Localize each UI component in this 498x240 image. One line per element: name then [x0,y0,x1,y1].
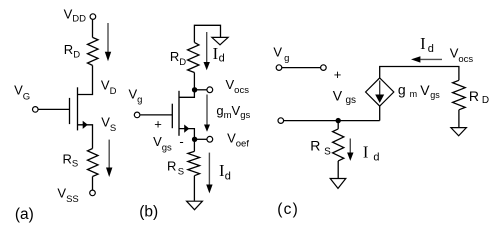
transistor Q2 channel bar (b) [178,91,180,136]
terminal Voef (b) [207,136,213,142]
svg-text:I: I [219,161,225,180]
terminal bottom left (c) [278,118,284,124]
wire diamond bottom (c) [379,106,381,121]
ground top (b) [212,37,228,44]
transistor Q2 gate bar (b) [171,104,173,129]
wire RD to ground (c) [458,110,460,128]
svg-text:d: d [373,152,379,164]
svg-text:I: I [363,142,369,161]
svg-text:d: d [428,43,434,55]
wire source to RS (a) [78,125,93,149]
wire node to terminal Vocs (b) [194,89,206,91]
wire node Voef to RS (b) [193,139,195,151]
resistor R4 RS (b) [188,151,200,175]
wire drain (b) [179,90,194,98]
wire RS to VSS (a) [92,177,94,191]
svg-text:+: + [334,67,342,82]
ground RD (c) [451,128,467,136]
terminal VG (a) [33,107,39,113]
wire gate (a) [39,108,70,110]
svg-text:I: I [213,44,219,63]
svg-text:m: m [410,89,418,99]
svg-text:d: d [219,53,225,65]
resistor R1 RD (a) [88,37,99,65]
terminal Vg (b) [134,112,140,118]
node junction dot RS (c) [336,118,341,123]
dependent source U1 diamond (c) [366,78,394,106]
current arrow Id beside RD (a) [105,23,111,61]
node junction dot Voef (b) [192,137,197,142]
svg-text:(c): (c) [277,201,299,218]
wire Vg open stub (c) [282,67,321,69]
dependent source U1 arrow (c) [375,81,384,104]
resistor R2 RS (a) [88,149,99,177]
svg-text:d: d [225,170,231,182]
node junction dot Vocs (b) [192,87,197,92]
wire RD to drain (a) [78,65,93,94]
wire VDD to RD (a) [92,20,94,38]
wire node to terminal Voef (b) [194,138,206,140]
wire RS to ground (b) [193,176,195,201]
transistor Q1 gate bar (a) [69,98,71,124]
wire node to RS (c) [337,121,339,129]
svg-text:g: g [398,82,406,98]
svg-text:gs: gs [430,90,440,100]
current arrow Id top (b) [204,32,210,70]
ground RS (c) [330,179,346,189]
transistor Q1 channel bar (a) [77,87,79,130]
terminal Vg right (c) [321,65,327,71]
ground bottom (b) [187,201,203,210]
svg-text:-: - [179,134,183,149]
resistor R6 RD (c) [453,80,466,110]
current arrow Id beside RS (a) [106,140,112,177]
current arrow Id beside RS (c) [347,139,353,161]
terminal Vocs (b) [207,87,213,93]
wire RD top to ground (b) [194,25,220,42]
resistor R5 RS (c) [333,129,344,161]
wire bottom rail (c) [284,120,380,122]
transistor Q2 source arrowhead (b) [184,125,189,133]
wire gate (b) [140,114,172,116]
wire diamond top to Vocs corner to RD (c) [380,67,459,81]
terminal Vg left (c) [276,65,282,71]
svg-text:+: + [154,116,162,131]
wire RD to node Vocs (b) [193,73,195,90]
wire source to node Voef (b) [179,129,194,140]
resistor R3 RD (b) [188,42,199,72]
svg-text:(b): (b) [139,204,158,221]
terminal VDD (a) [90,14,96,20]
current arrow Id top (c) [411,56,442,62]
current arrow Id bottom (b) [206,153,212,194]
transistor Q1 source arrowhead (a) [83,121,88,129]
current arrow gm Vgs (b) [204,95,210,132]
svg-text:(a): (a) [15,206,34,223]
svg-text:V: V [420,82,430,98]
svg-text:I: I [420,34,426,53]
wire RS to ground (c) [337,161,339,179]
terminal VSS (a) [90,190,96,196]
